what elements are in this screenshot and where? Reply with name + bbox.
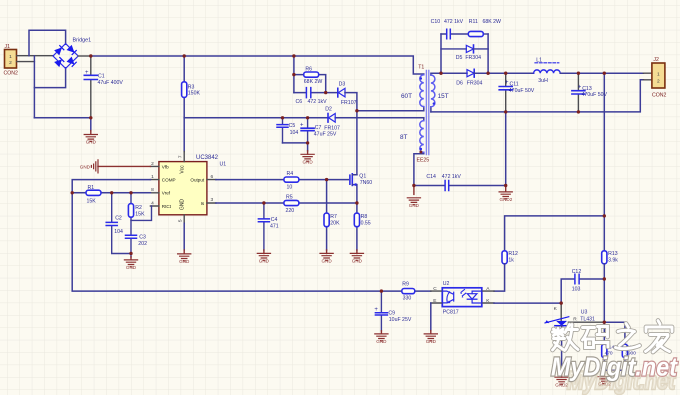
IC U1 UC3842 (150, 152, 226, 224)
svg-text:Vfb: Vfb (162, 164, 169, 169)
wire J1 pin2 stub (17, 61, 35, 63)
svg-text:GND: GND (86, 140, 97, 145)
connector J1 (4, 44, 19, 77)
svg-text:C7: C7 (315, 125, 322, 131)
watermark: 数 (553, 325, 579, 351)
capacitor C2 104 (106, 193, 131, 254)
svg-text:D5: D5 (456, 55, 463, 61)
svg-text:U1: U1 (220, 162, 227, 168)
inductor L1 3uH (534, 57, 561, 84)
transformer T1 core (417, 65, 430, 164)
svg-text:GND: GND (352, 259, 363, 264)
ground under R8 (350, 250, 363, 264)
capacitor C12 103 (561, 269, 604, 303)
svg-text:+: + (300, 123, 304, 129)
svg-text:C11: C11 (510, 82, 519, 88)
svg-text:0.55: 0.55 (361, 221, 371, 227)
capacitor C6 472 1kV (294, 88, 338, 105)
wire Is net (216, 202, 357, 204)
wire drain vertical (356, 111, 358, 175)
svg-text:472 1kV: 472 1kV (308, 99, 328, 105)
svg-text:47uF 400V: 47uF 400V (98, 80, 124, 86)
svg-text:3: 3 (210, 197, 213, 203)
svg-text:472 1kV: 472 1kV (444, 19, 464, 25)
svg-text:C4: C4 (271, 217, 278, 223)
svg-text:7N60: 7N60 (360, 180, 373, 186)
ground under C3 (124, 257, 137, 270)
svg-text:R7: R7 (330, 214, 337, 220)
svg-text:GND2: GND2 (500, 197, 513, 202)
resistor R12 1k (494, 251, 518, 291)
svg-text:GND: GND (409, 203, 420, 208)
resistor R15 3900 (604, 344, 636, 370)
svg-text:J1: J1 (5, 44, 11, 50)
svg-text:C1: C1 (98, 74, 105, 80)
svg-text:TL431: TL431 (580, 317, 595, 323)
svg-text:FR304: FR304 (467, 80, 483, 86)
svg-text:FR304: FR304 (465, 55, 481, 61)
svg-text:GND: GND (180, 199, 186, 211)
diode D6 FR304 (456, 69, 482, 86)
svg-text:D6: D6 (456, 80, 463, 86)
svg-text:Q1: Q1 (359, 173, 366, 179)
watermark: MyDigit.net main (551, 352, 678, 382)
bridge rectifier Bridge1 (53, 38, 91, 69)
svg-text:R3: R3 (188, 84, 195, 90)
wire COMP net: pin1 left, down, feedback line to R9 (72, 180, 402, 292)
svg-text:Output: Output (190, 178, 205, 183)
ground under opto emitter (424, 303, 437, 344)
svg-text:68K 2W: 68K 2W (483, 19, 502, 25)
wire D6 anode line from 15T top (441, 72, 467, 74)
capacitor C14 472 1kV (414, 174, 506, 191)
svg-text:8T: 8T (400, 134, 408, 141)
capacitor C7 47uF 25V (300, 118, 337, 143)
svg-text:471: 471 (270, 223, 279, 229)
svg-text:68K 2W: 68K 2W (304, 79, 323, 85)
svg-text:R4: R4 (287, 171, 294, 177)
svg-text:+: + (505, 80, 509, 86)
resistor R11 68K 2W (468, 19, 501, 37)
svg-text:8: 8 (151, 187, 154, 193)
svg-text:1: 1 (9, 54, 12, 60)
capacitor C13 470uF 50V (572, 73, 608, 112)
wire main DC+ rail (91, 56, 424, 74)
svg-text:GND: GND (179, 259, 190, 264)
svg-text:1k: 1k (508, 258, 514, 264)
svg-text:20K: 20K (330, 221, 340, 227)
svg-text:R6: R6 (305, 67, 312, 73)
svg-text:EE25: EE25 (417, 157, 430, 163)
svg-text:R: R (573, 317, 577, 323)
wire drain node to 60T bottom (357, 107, 424, 111)
svg-text:CON2: CON2 (652, 92, 667, 98)
wire J1 pin1 stub to bridge left corner (17, 55, 54, 57)
capacitor C10 472 1kV (431, 19, 469, 39)
capacitor C5 104 (277, 118, 298, 143)
svg-text:5: 5 (177, 219, 183, 222)
svg-text:PC817: PC817 (443, 309, 459, 315)
svg-text:R13: R13 (608, 251, 618, 257)
svg-text:3uH: 3uH (538, 78, 548, 84)
wire D6 cathode to output node (474, 72, 506, 74)
svg-text:+: + (374, 307, 378, 313)
transformer winding 60T (401, 75, 424, 107)
ground under C4 (257, 250, 270, 264)
svg-text:15K: 15K (87, 198, 97, 204)
svg-text:15T: 15T (438, 93, 449, 100)
svg-text:2: 2 (9, 60, 12, 66)
svg-text:1: 1 (657, 72, 660, 78)
ground under C1 (84, 118, 97, 145)
svg-text:FR107: FR107 (341, 100, 357, 106)
svg-text:1: 1 (151, 174, 154, 180)
svg-text:CON2: CON2 (4, 71, 19, 77)
svg-text:MyDigit.net: MyDigit.net (551, 352, 678, 382)
svg-text:Vref: Vref (162, 191, 171, 196)
wire R9 to opto (415, 290, 431, 292)
resistor R4 10 (284, 171, 299, 190)
wire negative rail to C1 bottom (34, 117, 90, 119)
svg-text:47uF 25V: 47uF 25V (314, 132, 337, 138)
svg-text:10uF 25V: 10uF 25V (389, 317, 412, 323)
svg-text:104: 104 (290, 130, 299, 136)
resistor R7 20K with gate pulldown wire (324, 180, 340, 250)
svg-text:T1: T1 (418, 65, 424, 71)
transistor Q1 7N60 (350, 173, 372, 203)
resistor R14 470 (602, 344, 615, 370)
svg-text:Vcc: Vcc (180, 165, 186, 174)
wire bridge right corner to C1 node (78, 55, 91, 57)
wire K line to TL431 (494, 302, 561, 304)
svg-text:GND: GND (80, 165, 91, 170)
resistor R6 68K 2W (294, 67, 326, 93)
wire D3 to drain node (345, 93, 357, 111)
resistor R13 3.9k (602, 251, 619, 344)
diode D2 FR107 (324, 107, 340, 132)
ground power port at Vfb pin 2 (80, 160, 151, 173)
svg-text:R8: R8 (361, 214, 368, 220)
svg-text:103: 103 (572, 286, 581, 292)
wire sense line from output rail down (603, 73, 605, 251)
wire top loop to bridge top corner (29, 30, 66, 55)
svg-text:L1: L1 (536, 57, 542, 63)
svg-text:E: E (433, 298, 436, 304)
ground under 8T return (407, 186, 420, 208)
diode D3 FR107 (338, 81, 357, 106)
svg-text:RtCt: RtCt (162, 204, 172, 209)
ground under C7 (301, 143, 314, 165)
svg-text:GND: GND (302, 159, 313, 164)
shunt regulator U3 TL431 (545, 303, 604, 374)
watermark: faint offset copy MyDigit.net (567, 367, 676, 395)
resistor R3 150K (182, 56, 201, 118)
svg-text:330: 330 (403, 295, 412, 301)
svg-text:R5: R5 (286, 195, 293, 201)
wire output rail to L1 (506, 72, 534, 74)
svg-text:+: + (85, 70, 89, 76)
svg-text:C2: C2 (115, 216, 122, 222)
svg-text:2: 2 (657, 79, 660, 85)
svg-text:60T: 60T (401, 93, 412, 100)
svg-text:GND: GND (321, 259, 332, 264)
resistor R8 0.55 (354, 203, 371, 250)
watermark: 之 (616, 324, 640, 349)
svg-text:R9: R9 (402, 282, 409, 288)
svg-text:C10: C10 (431, 19, 441, 25)
wire secondary return rail (431, 80, 644, 112)
svg-text:R11: R11 (469, 19, 478, 25)
svg-text:C5: C5 (289, 123, 296, 129)
svg-text:COMP: COMP (162, 178, 176, 183)
svg-text:C6: C6 (296, 99, 303, 105)
wire Output net (216, 179, 348, 181)
capacitor C1 47uF 400V (84, 56, 123, 118)
wire L1 to J2 rail (560, 72, 643, 74)
svg-text:10: 10 (287, 185, 293, 191)
svg-text:3.9k: 3.9k (608, 258, 618, 264)
svg-text:GND: GND (126, 265, 137, 270)
snubber branch: wire from rail down (293, 56, 295, 93)
svg-text:6: 6 (210, 174, 213, 180)
ground GND2 under TL431 anode (555, 374, 568, 388)
optocoupler U2 PC817 (431, 281, 494, 315)
wire Vcc pin 7 riser (183, 118, 185, 152)
svg-text:15K: 15K (135, 211, 145, 217)
svg-text:FR107: FR107 (324, 126, 340, 132)
wire R12 branch (505, 216, 605, 251)
svg-text:GND: GND (376, 339, 387, 344)
svg-text:C3: C3 (139, 235, 146, 241)
svg-text:U3: U3 (581, 310, 588, 316)
capacitor C3 202 (126, 220, 148, 257)
svg-text:202: 202 (138, 241, 147, 247)
ground under C9 (375, 331, 388, 344)
svg-text:150K: 150K (188, 91, 201, 97)
wire loop to bridge bottom corner (34, 68, 65, 88)
capacitor C4 471 (258, 203, 278, 250)
capacitor C11 470uF 50V (499, 73, 535, 112)
ground GND2 under divider (598, 370, 612, 386)
svg-text:C12: C12 (572, 269, 582, 275)
wire left drop to bottom rail (33, 56, 35, 118)
svg-text:J2: J2 (653, 57, 659, 63)
svg-text:GND: GND (259, 259, 270, 264)
svg-text:C13: C13 (582, 86, 592, 92)
svg-text:U2: U2 (443, 281, 450, 287)
wire C5 bottom to C7 bottom (283, 142, 308, 144)
resistor R5 220 (284, 195, 299, 215)
resistor R2 15K (128, 193, 151, 221)
snubber verticals (441, 34, 488, 73)
svg-text:GND: GND (426, 339, 437, 344)
resistor R1 15K (86, 185, 101, 205)
svg-text:7: 7 (177, 155, 183, 158)
svg-text:220: 220 (286, 208, 295, 214)
ground GND2 under return rail drop (499, 186, 513, 203)
svg-text:R12: R12 (508, 251, 518, 257)
watermark: 家 (646, 321, 673, 353)
wire GND2 drop from return rail (505, 112, 507, 186)
svg-text:UC3842: UC3842 (196, 155, 219, 161)
svg-text:104: 104 (114, 229, 123, 235)
transformer winding 15T (431, 73, 449, 112)
svg-text:+: + (578, 85, 582, 91)
svg-text:D3: D3 (339, 81, 346, 87)
svg-text:C9: C9 (388, 310, 395, 316)
connector J2 (643, 57, 666, 98)
svg-text:Bridge1: Bridge1 (73, 38, 92, 44)
svg-text:D2: D2 (325, 107, 332, 113)
transformer winding 8T (400, 118, 424, 186)
svg-text:R2: R2 (135, 205, 142, 211)
diode D5 FR304 (441, 45, 488, 61)
wire Vcc line (184, 117, 414, 119)
wire Vref net (72, 192, 150, 194)
svg-text:C14: C14 (426, 174, 436, 180)
ground under R7 (320, 250, 333, 264)
resistor R9 330 (402, 282, 415, 302)
wire ref line to R15 (604, 322, 625, 344)
svg-text:470uF 50V: 470uF 50V (509, 88, 535, 94)
ground under IC GND pin 5 (178, 223, 191, 264)
capacitor C9 10uF 25V (374, 291, 411, 331)
svg-text:2: 2 (151, 161, 154, 167)
svg-text:C: C (433, 286, 437, 292)
watermark: 码 (583, 327, 609, 348)
svg-text:R1: R1 (88, 185, 95, 191)
svg-text:472 1kV: 472 1kV (442, 174, 462, 180)
